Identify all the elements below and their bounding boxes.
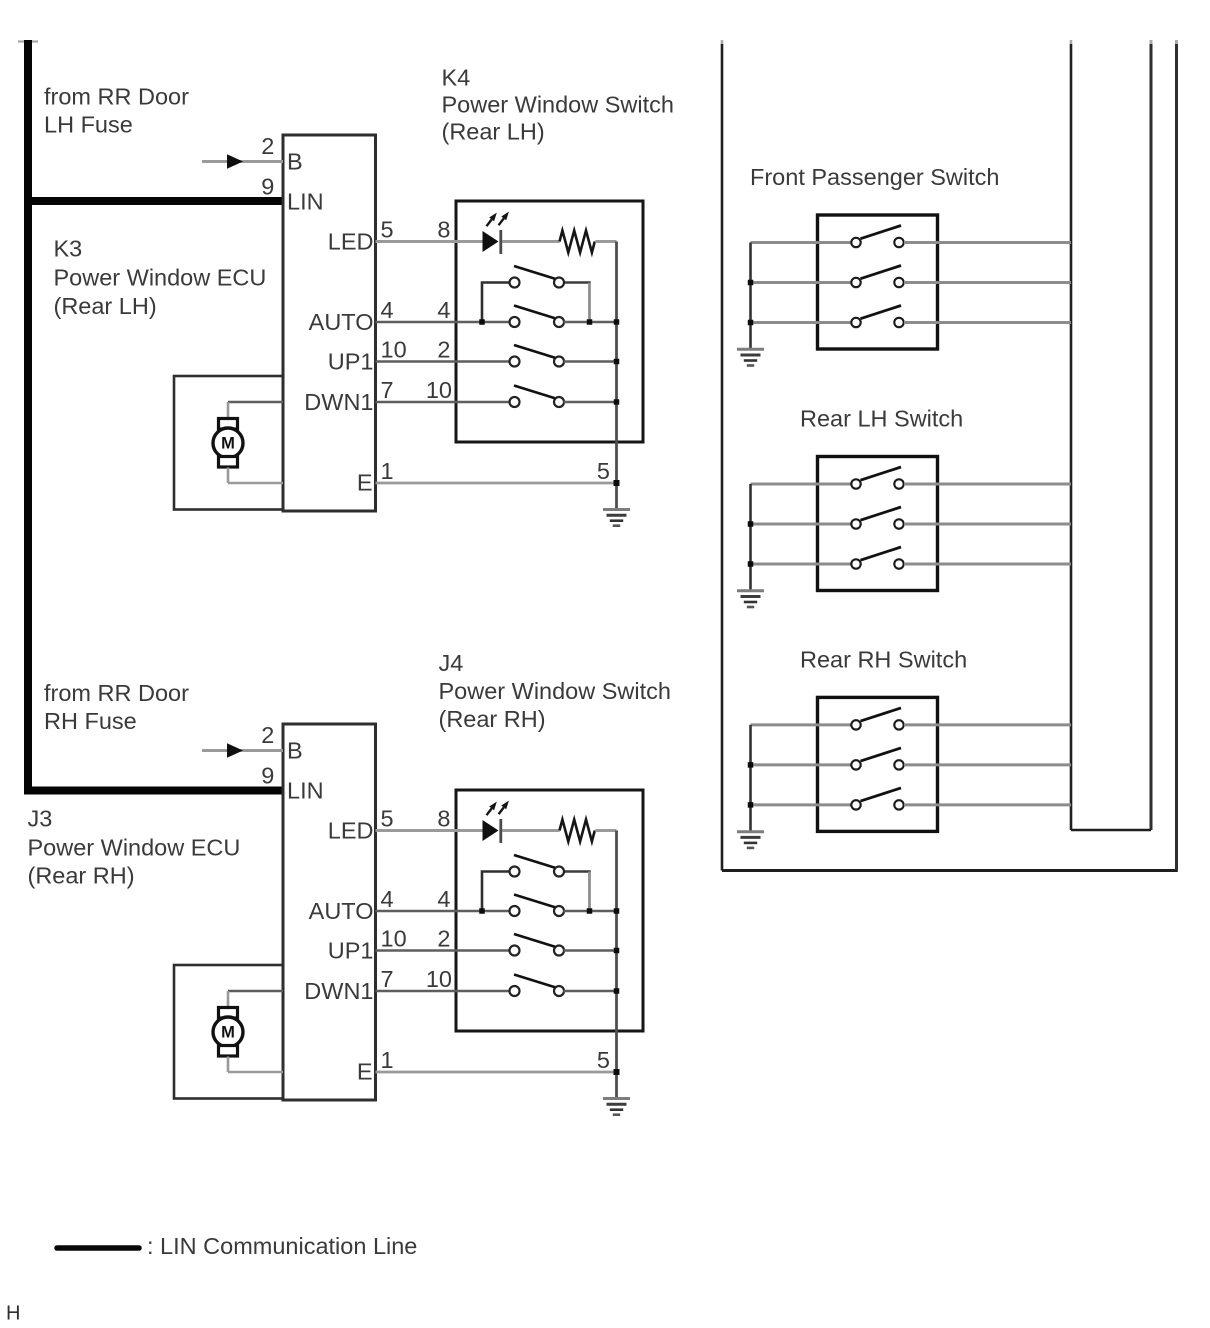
- power window ECU K3 (rear LH) box: [283, 135, 376, 511]
- wire motor top stub: [227, 991, 230, 1008]
- wire resistor to right bus: [595, 829, 616, 832]
- Front Passenger Switch up contact left: [851, 238, 860, 247]
- Front Passenger Switch up blade: [861, 226, 902, 239]
- svg-text:4: 4: [381, 297, 394, 323]
- svg-text:J3: J3: [28, 806, 53, 832]
- svg-text:Rear RH Switch: Rear RH Switch: [800, 646, 967, 672]
- UP1 switch in K4 blade: [514, 345, 555, 358]
- motor M circle (rear RH): [213, 1017, 243, 1047]
- Rear RH Switch down contact right: [894, 800, 903, 809]
- svg-text:9: 9: [261, 763, 274, 789]
- wire resistor to right bus: [595, 240, 616, 243]
- Front Passenger Switch up wire right: [904, 241, 1071, 244]
- svg-text:E: E: [357, 1059, 373, 1085]
- DWN1 switch in J4 blade: [514, 975, 555, 988]
- Rear RH Switch down wire right: [904, 803, 1071, 806]
- Rear RH Switch up contact right: [894, 720, 903, 729]
- Front Passenger Switch center wire left: [751, 281, 852, 284]
- Rear LH Switch center blade: [861, 507, 902, 520]
- AUTO switch in J4 wire left: [376, 910, 510, 913]
- Rear LH Switch down blade: [861, 547, 902, 560]
- wire motor top stub: [227, 402, 230, 419]
- DWN1 switch in J4 contact left: [510, 986, 520, 996]
- latch switch left branch in J4: [482, 872, 510, 912]
- AUTO switch in K4 contact right: [554, 317, 564, 327]
- Front Passenger Switch down contact left: [851, 318, 860, 327]
- Rear LH Switch box: [818, 457, 938, 591]
- window motor box (rear RH): [174, 965, 283, 1099]
- power window ECU J3 (rear RH) box: [283, 724, 376, 1100]
- UP1 switch in J4 wire right: [564, 949, 617, 952]
- node junction AUTO-bus: [614, 908, 620, 914]
- UP1 switch in K4 contact right: [554, 357, 564, 367]
- UP1 switch in K4 contact left: [510, 357, 520, 367]
- Rear RH Switch node junction middle: [748, 762, 754, 768]
- svg-text:7: 7: [381, 966, 394, 992]
- Rear RH Switch node junction lower: [748, 802, 754, 808]
- LED light arrow left: [487, 213, 497, 227]
- Rear RH Switch ground bus: [749, 725, 752, 832]
- svg-text:E: E: [357, 470, 373, 496]
- svg-text:7: 7: [381, 377, 394, 403]
- LED light arrow left: [487, 802, 497, 816]
- Rear RH Switch center contact left: [851, 760, 860, 769]
- DWN1 switch in J4 wire right: [564, 990, 617, 993]
- svg-text:DWN1: DWN1: [304, 978, 373, 1004]
- DWN1 switch in K4 contact left: [510, 397, 520, 407]
- Rear LH Switch center contact right: [894, 519, 903, 528]
- svg-text:K4: K4: [442, 65, 471, 91]
- UP1 switch in J4 blade: [514, 934, 555, 947]
- wire motor bottom stub: [227, 468, 230, 484]
- LED anode triangle in J4: [483, 820, 499, 841]
- svg-text:M: M: [221, 435, 235, 453]
- svg-text:5: 5: [597, 1047, 610, 1073]
- DWN1 switch in K4 contact right: [554, 397, 564, 407]
- svg-text:H: H: [6, 1303, 20, 1325]
- svg-text:(Rear LH): (Rear LH): [54, 293, 157, 319]
- legend LIN line sample: [57, 1245, 139, 1251]
- arrowhead on B wire of J3: [227, 743, 243, 758]
- node junction E-bus: [614, 480, 620, 486]
- node junction AUTO-latch left: [479, 908, 485, 914]
- svg-text:from RR Door: from RR Door: [44, 84, 189, 110]
- ground symbol of Rear LH Switch: [737, 591, 764, 607]
- Rear LH Switch ground bus: [749, 484, 752, 591]
- Front Passenger Switch ground bus: [749, 243, 752, 350]
- svg-text:AUTO: AUTO: [309, 898, 374, 924]
- Rear RH Switch center wire left: [751, 763, 852, 766]
- LED cathode bar: [499, 819, 502, 843]
- Front Passenger Switch center blade: [861, 266, 902, 279]
- Rear RH Switch down contact left: [851, 800, 860, 809]
- Rear RH Switch up contact left: [851, 720, 860, 729]
- node junction DWN1-bus: [614, 399, 620, 405]
- svg-text:(Rear LH): (Rear LH): [442, 119, 545, 145]
- UP1 switch in J4 contact right: [554, 946, 564, 956]
- svg-text:B: B: [287, 738, 303, 764]
- svg-text:Rear LH Switch: Rear LH Switch: [800, 406, 963, 432]
- resistor in LED circuit of J4: [560, 820, 595, 842]
- svg-text:8: 8: [437, 806, 450, 832]
- Rear LH Switch center contact left: [851, 519, 860, 528]
- svg-text:Front Passenger Switch: Front Passenger Switch: [750, 164, 999, 190]
- AUTO switch in J4 contact left: [510, 906, 520, 916]
- Rear RH Switch down wire left: [751, 803, 852, 806]
- Front Passenger Switch node junction middle: [748, 280, 754, 286]
- svg-text:B: B: [287, 149, 303, 175]
- DWN1 switch in K4 wire right: [564, 401, 617, 404]
- inner bus left vertical wire: [1070, 44, 1073, 830]
- continuation tip outer-right vertical: [1175, 40, 1178, 45]
- svg-text:LED: LED: [328, 229, 374, 255]
- svg-text:9: 9: [261, 174, 274, 200]
- Front Passenger Switch down blade: [861, 306, 902, 319]
- svg-text:2: 2: [437, 337, 450, 363]
- svg-text:1: 1: [381, 458, 394, 484]
- UP1 switch in J4 contact left: [510, 946, 520, 956]
- latch switch right branch in J4: [564, 872, 591, 912]
- Rear LH Switch down contact right: [894, 559, 903, 568]
- Front Passenger Switch center contact left: [851, 278, 860, 287]
- wire ECU K3 DWN side to motor: [228, 401, 283, 404]
- Rear RH Switch up wire left: [751, 723, 852, 726]
- continuation tip inner-right vertical: [1150, 40, 1153, 45]
- AUTO switch in K4 blade: [514, 306, 555, 319]
- UP1 switch in K4 wire right: [564, 360, 617, 363]
- svg-text:UP1: UP1: [328, 938, 374, 964]
- Front Passenger Switch box: [818, 215, 938, 349]
- motor M circle (rear LH): [213, 428, 243, 458]
- svg-text:5: 5: [381, 217, 394, 243]
- wire ECU J3 DWN side to motor: [228, 990, 283, 993]
- Rear RH Switch center wire right: [904, 763, 1071, 766]
- Front Passenger Switch up wire left: [751, 241, 852, 244]
- Rear RH Switch center blade: [861, 748, 902, 761]
- Front Passenger Switch node junction lower: [748, 320, 754, 326]
- svg-text:(Rear RH): (Rear RH): [439, 706, 546, 732]
- window motor box (rear LH): [174, 376, 283, 510]
- svg-text:8: 8: [437, 217, 450, 243]
- svg-text:Power Window ECU: Power Window ECU: [28, 835, 241, 861]
- svg-text:1: 1: [381, 1047, 394, 1073]
- Rear RH Switch down blade: [861, 788, 902, 801]
- continuation tip inner-left vertical: [1070, 40, 1073, 45]
- svg-text:LIN: LIN: [287, 778, 324, 804]
- Rear LH Switch down wire left: [751, 563, 852, 566]
- Rear LH Switch node junction lower: [748, 561, 754, 567]
- svg-text:10: 10: [381, 337, 407, 363]
- Front Passenger Switch center contact right: [894, 278, 903, 287]
- svg-text:Power Window ECU: Power Window ECU: [54, 265, 267, 291]
- wire into pin 2 (B) of J3: [202, 749, 283, 752]
- svg-text:10: 10: [426, 377, 452, 403]
- node junction AUTO-latch right: [587, 908, 593, 914]
- latch switch blade: [514, 855, 555, 868]
- ground symbol of Rear RH Switch: [737, 832, 764, 848]
- svg-text:4: 4: [437, 297, 450, 323]
- svg-text:10: 10: [426, 966, 452, 992]
- svg-text:J4: J4: [439, 650, 464, 676]
- wire into pin 2 (B) of K3: [202, 160, 283, 163]
- svg-text:5: 5: [381, 806, 394, 832]
- outer harness right vertical wire: [1175, 44, 1178, 871]
- motor brush top: [219, 1008, 238, 1019]
- svg-text:(Rear RH): (Rear RH): [28, 863, 135, 889]
- svg-text:from RR Door: from RR Door: [44, 680, 189, 706]
- Rear RH Switch up blade: [861, 708, 902, 721]
- DWN1 switch in K4 blade: [514, 386, 555, 399]
- LED cathode bar: [499, 230, 502, 254]
- UP1 switch in J4 wire left: [376, 949, 510, 952]
- svg-text:2: 2: [261, 133, 274, 159]
- Front Passenger Switch up contact right: [894, 238, 903, 247]
- wire LED to resistor: [502, 829, 560, 832]
- ground symbol below J4: [603, 1099, 630, 1115]
- motor brush bottom: [219, 1046, 238, 1057]
- outer harness bottom wire: [722, 869, 1178, 872]
- Rear LH Switch up blade: [861, 467, 902, 480]
- latch switch blade: [514, 266, 555, 279]
- node junction UP1-bus: [614, 359, 620, 365]
- svg-text:4: 4: [437, 886, 450, 912]
- svg-text:LH Fuse: LH Fuse: [44, 112, 133, 138]
- svg-text:10: 10: [381, 926, 407, 952]
- svg-text:AUTO: AUTO: [309, 309, 374, 335]
- Rear LH Switch center wire left: [751, 523, 852, 526]
- svg-text:4: 4: [381, 886, 394, 912]
- node junction AUTO-latch left: [479, 319, 485, 325]
- outer harness left vertical wire: [721, 44, 724, 871]
- Rear LH Switch down contact left: [851, 559, 860, 568]
- wire J3 E pin to ground bus: [376, 1071, 617, 1074]
- motor brush top: [219, 419, 238, 430]
- Front Passenger Switch center wire right: [904, 281, 1071, 284]
- UP1 switch in K4 wire left: [376, 360, 510, 363]
- wire K3 E pin to ground bus: [376, 482, 617, 485]
- LED light arrow right: [499, 212, 509, 226]
- svg-text:UP1: UP1: [328, 349, 374, 375]
- wire motor bottom stub: [227, 1057, 230, 1073]
- AUTO switch in J4 blade: [514, 895, 555, 908]
- LIN communication trunk line (thick vertical): [24, 40, 32, 795]
- svg-text:DWN1: DWN1: [304, 389, 373, 415]
- LED light arrow right: [499, 801, 509, 815]
- svg-text:Power Window Switch: Power Window Switch: [439, 678, 671, 704]
- DWN1 switch in J4 wire left: [376, 990, 510, 993]
- wire motor to ECU K3 E side: [228, 482, 283, 485]
- right bus vertical in J4: [615, 831, 618, 1099]
- wire motor to ECU J3 E side: [228, 1071, 283, 1074]
- latch switch right branch in K4: [564, 283, 591, 323]
- svg-text:LED: LED: [328, 818, 374, 844]
- svg-text:RH Fuse: RH Fuse: [44, 708, 137, 734]
- Rear LH Switch node junction middle: [748, 521, 754, 527]
- power window switch K4 box: [456, 201, 643, 442]
- node junction AUTO-bus: [614, 319, 620, 325]
- latch switch left branch in K4: [482, 283, 510, 323]
- continuation tip outer-left vertical: [721, 40, 724, 45]
- svg-text:5: 5: [597, 458, 610, 484]
- DWN1 switch in K4 wire left: [376, 401, 510, 404]
- svg-text:M: M: [221, 1024, 235, 1042]
- DWN1 switch in J4 contact right: [554, 986, 564, 996]
- ground symbol below K4: [603, 510, 630, 526]
- power window switch J4 box: [456, 790, 643, 1031]
- Rear LH Switch up contact right: [894, 479, 903, 488]
- Rear LH Switch up contact left: [851, 479, 860, 488]
- latch switch contact left: [510, 867, 520, 877]
- right bus vertical in K4: [615, 242, 618, 510]
- resistor in LED circuit of K4: [560, 231, 595, 253]
- wire K3 LED pin 5 to LED: [376, 240, 484, 243]
- svg-text:: LIN Communication Line: : LIN Communication Line: [147, 1233, 417, 1259]
- node junction UP1-bus: [614, 948, 620, 954]
- wire J3 LED pin 5 to LED: [376, 829, 484, 832]
- latch switch contact right: [554, 278, 564, 288]
- svg-text:2: 2: [437, 926, 450, 952]
- Rear RH Switch center contact right: [894, 760, 903, 769]
- Front Passenger Switch down contact right: [894, 318, 903, 327]
- svg-text:2: 2: [261, 722, 274, 748]
- LIN branch to K3 (thick horizontal): [24, 197, 283, 205]
- Rear RH Switch box: [818, 697, 938, 831]
- motor brush bottom: [219, 457, 238, 468]
- svg-text:LIN: LIN: [287, 189, 324, 215]
- Front Passenger Switch down wire right: [904, 321, 1071, 324]
- Front Passenger Switch down wire left: [751, 321, 852, 324]
- continuation tick at top of LIN trunk: [18, 40, 38, 42]
- AUTO switch in K4 wire left: [376, 321, 510, 324]
- Rear LH Switch down wire right: [904, 563, 1071, 566]
- latch switch contact left: [510, 278, 520, 288]
- inner bus bottom wire: [1071, 829, 1151, 832]
- Rear LH Switch up wire left: [751, 483, 852, 486]
- svg-text:K3: K3: [54, 236, 83, 262]
- AUTO switch in K4 contact left: [510, 317, 520, 327]
- arrowhead on B wire of K3: [227, 154, 243, 169]
- Rear RH Switch up wire right: [904, 723, 1071, 726]
- svg-text:Power Window Switch: Power Window Switch: [442, 92, 674, 118]
- wire LED to resistor: [502, 240, 560, 243]
- node junction DWN1-bus: [614, 988, 620, 994]
- node junction E-bus: [614, 1069, 620, 1075]
- AUTO switch in K4 wire right: [564, 321, 617, 324]
- Rear LH Switch up wire right: [904, 483, 1071, 486]
- AUTO switch in J4 wire right: [564, 910, 617, 913]
- inner bus right vertical wire: [1150, 44, 1153, 830]
- Rear LH Switch center wire right: [904, 523, 1071, 526]
- LED anode triangle in K4: [483, 231, 499, 252]
- ground symbol of Front Passenger Switch: [737, 349, 764, 365]
- LIN branch to J3 (thick horizontal): [24, 787, 283, 795]
- AUTO switch in J4 contact right: [554, 906, 564, 916]
- node junction AUTO-latch right: [587, 319, 593, 325]
- latch switch contact right: [554, 867, 564, 877]
